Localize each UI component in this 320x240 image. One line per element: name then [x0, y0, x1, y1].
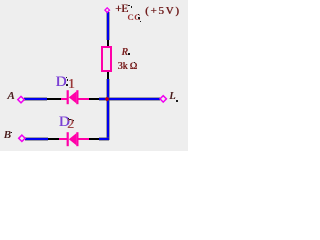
wire vertical junction down to corner at B row (blue) — [107, 98, 109, 140]
label CC subscript — [128, 13, 142, 22]
wire vertical from +Vcc node to resistor (blue) — [107, 12, 109, 40]
label +Ecc — [115, 4, 128, 16]
wire A node to D1 (blue) — [24, 98, 47, 100]
resistor R bottom pin (black) — [107, 72, 109, 79]
diode D2 triangle — [69, 133, 77, 145]
diode D1 cathode bar — [67, 90, 69, 104]
label R — [122, 48, 128, 58]
node B terminal diamond — [19, 135, 25, 141]
diode D2 cathode bar — [67, 132, 69, 146]
diode D1 right stub (magenta) — [78, 98, 89, 100]
label D1 — [56, 75, 75, 91]
node L terminal diamond — [160, 96, 166, 102]
resistor R top pin (black) — [107, 40, 109, 46]
node +Vcc terminal diamond — [105, 8, 110, 13]
node A terminal diamond — [18, 96, 24, 102]
diode D1 left stub (magenta) — [61, 98, 67, 100]
wire vertical resistor to junction (blue) — [107, 79, 109, 98]
label B — [4, 130, 11, 141]
diode D1 triangle — [69, 91, 77, 103]
label A — [7, 91, 14, 102]
diode D1 anode bar — [76, 90, 78, 104]
wire D1 to junction and on to L (blue) — [99, 98, 160, 100]
diode D2 right stub (magenta) — [78, 138, 89, 140]
diode D1 right pin (black) — [89, 98, 99, 100]
junction dot (red diamond) — [105, 97, 109, 101]
diode D2 left stub (magenta) — [59, 138, 67, 140]
label (+5V) — [145, 6, 180, 17]
diode D2 anode bar — [76, 132, 78, 146]
wire D2 to corner (blue) — [99, 138, 109, 140]
diode D2 right pin (black) — [89, 138, 99, 140]
speckle noise dots from scan — [128, 5, 130, 7]
wire B node to D2 (blue) — [25, 138, 48, 140]
label L — [169, 91, 175, 102]
diode D2 left pin (black) — [48, 138, 59, 140]
label D2 — [59, 115, 74, 131]
label 3k ohm — [118, 62, 138, 72]
diode D1 left pin (black) — [47, 98, 61, 100]
resistor R body — [101, 46, 112, 72]
